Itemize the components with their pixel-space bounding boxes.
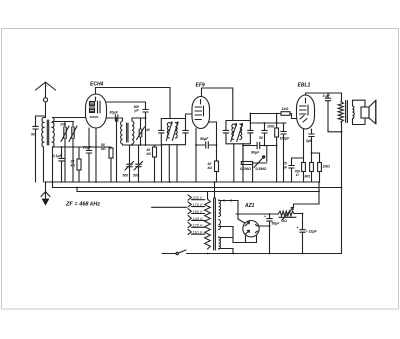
svg-text:40: 40 bbox=[145, 128, 150, 132]
capacitor trimmer 500 a bbox=[123, 145, 134, 182]
mains tap arrow 220 V bbox=[188, 195, 191, 200]
wire ECH4 cathode bbox=[95, 128, 97, 182]
inductor output secondary bbox=[353, 106, 355, 119]
inductor antenna primary bbox=[42, 118, 44, 148]
wire AVC line bbox=[53, 146, 112, 148]
svg-text:3 µF: 3 µF bbox=[323, 94, 331, 98]
tube AZ1 rectifier bbox=[243, 221, 259, 237]
svg-text:500: 500 bbox=[133, 174, 139, 178]
wire B+ rail right bbox=[341, 122, 343, 254]
svg-text:145 V: 145 V bbox=[193, 217, 203, 221]
wire coil tops bbox=[52, 147, 54, 188]
ground bbox=[41, 182, 50, 206]
wire AZ1 heater loop bbox=[219, 227, 257, 243]
capacitor 300uF padder bbox=[134, 102, 149, 145]
wire primary top bbox=[207, 192, 209, 200]
svg-text:+: + bbox=[297, 226, 299, 230]
wire IF2 to chassis bbox=[234, 144, 243, 182]
svg-text:kΩ: kΩ bbox=[101, 147, 106, 151]
antenna bbox=[36, 82, 56, 102]
svg-text:AZ1: AZ1 bbox=[244, 203, 255, 209]
svg-text:50µF: 50µF bbox=[272, 222, 281, 226]
arrow core adjust IF1 a bbox=[166, 122, 172, 141]
inductor IF1 secondary bbox=[175, 123, 177, 139]
capacitor 20uF bbox=[82, 128, 92, 182]
svg-text:125 V: 125 V bbox=[193, 224, 203, 228]
resistor 1M detector bbox=[267, 123, 279, 182]
mains terminal 1 bbox=[152, 206, 187, 208]
capacitor 25uF bias bbox=[282, 158, 304, 182]
capacitor 50uF cathode bbox=[196, 137, 217, 148]
wire EF9 grid bbox=[186, 114, 193, 119]
wire HV to AZ1 plate bbox=[219, 199, 245, 223]
resistor 1M output bbox=[312, 153, 331, 182]
transformer output primary bbox=[338, 102, 343, 123]
transformer mains secondary heater AZ1 bbox=[219, 220, 221, 230]
capacitor antenna 50 bbox=[31, 116, 46, 182]
wire AZ1 cathode bbox=[259, 214, 269, 254]
wire core ground bbox=[214, 182, 216, 198]
svg-text:150 V: 150 V bbox=[193, 210, 203, 214]
wire bottom return bbox=[187, 253, 342, 255]
svg-text:220 V: 220 V bbox=[192, 196, 203, 200]
svg-text:170 V: 170 V bbox=[193, 203, 203, 207]
arrow core adjust IF2 a bbox=[231, 124, 237, 142]
resistor 40k cathode bbox=[207, 122, 219, 182]
svg-text:50µF: 50µF bbox=[200, 137, 209, 141]
variable capacitor tuning bbox=[53, 122, 74, 183]
tube EBL1 bbox=[297, 95, 315, 129]
svg-text:Ω: Ω bbox=[295, 173, 299, 177]
inductor core antenna bbox=[47, 120, 48, 145]
wire antenna down bbox=[44, 102, 46, 182]
inductor IF2 secondary bbox=[240, 124, 242, 140]
svg-text:EBL1: EBL1 bbox=[298, 83, 311, 89]
svg-text:ECH4: ECH4 bbox=[90, 82, 104, 88]
resistor 1k grid stopper bbox=[281, 107, 297, 119]
inductor IF1 primary bbox=[167, 123, 169, 139]
inductor antenna secondary bbox=[53, 118, 55, 148]
svg-text:50: 50 bbox=[31, 133, 35, 137]
variable capacitor trimmer bbox=[69, 122, 77, 183]
heater bus bbox=[77, 188, 319, 192]
svg-text:80µF: 80µF bbox=[110, 111, 119, 115]
wire detector rail2 bbox=[250, 114, 286, 124]
variable capacitor oscillator bbox=[137, 118, 150, 140]
wire heater winding taps bbox=[219, 238, 233, 254]
transformer output core bbox=[346, 101, 348, 123]
svg-text:50: 50 bbox=[259, 136, 263, 140]
capacitor 90uF coupling bbox=[251, 142, 260, 154]
switch mains bbox=[176, 250, 186, 255]
capacitor 80uF coupling bbox=[107, 111, 123, 122]
mains tap arrow 125 V bbox=[188, 223, 191, 228]
resistor 0.2M bbox=[305, 163, 314, 183]
resistor 25k bbox=[70, 147, 82, 182]
svg-text:100: 100 bbox=[60, 123, 66, 127]
wire EF9 cathode bbox=[195, 129, 197, 183]
transformer mains secondary heater bbox=[219, 237, 221, 249]
svg-text:0,5MΩ: 0,5MΩ bbox=[256, 167, 267, 171]
inductor oscillator secondary bbox=[132, 121, 134, 144]
svg-text:0,1MΩ: 0,1MΩ bbox=[240, 167, 251, 171]
capacitor 100uF diode bbox=[280, 123, 291, 182]
svg-text:1MΩ: 1MΩ bbox=[323, 165, 331, 169]
wire B+ raw bbox=[236, 213, 279, 215]
inductor core oscillator bbox=[127, 123, 128, 142]
wire oscillator bottom line bbox=[123, 137, 162, 145]
resistor 50k bbox=[101, 143, 113, 182]
svg-text:1MΩ: 1MΩ bbox=[267, 125, 275, 129]
capacitor 5uF cathode bbox=[306, 129, 314, 163]
wire choke out bbox=[294, 213, 303, 215]
svg-text:110 V: 110 V bbox=[193, 231, 203, 235]
svg-text:1kΩ: 1kΩ bbox=[282, 107, 289, 111]
capacitor 3uF tone bbox=[323, 93, 342, 132]
svg-text:90µF: 90µF bbox=[251, 151, 260, 155]
wire EF9 anode to IF2 bbox=[202, 88, 233, 121]
wire IF1 feed bbox=[161, 145, 163, 182]
svg-text:5µF: 5µF bbox=[306, 139, 313, 143]
capacitor trimmer 500 b bbox=[133, 145, 143, 182]
capacitor detector a bbox=[259, 123, 267, 146]
arrow core adjust IF1 b bbox=[172, 122, 178, 141]
wire detector rail bbox=[250, 114, 281, 121]
transformer mains secondary HV bbox=[219, 200, 221, 217]
svg-text:7kΩ: 7kΩ bbox=[281, 219, 288, 223]
capacitor 25uF filter bbox=[264, 215, 280, 226]
svg-text:500: 500 bbox=[123, 174, 129, 178]
transformer mains core bbox=[214, 198, 216, 250]
resistor 40k oscillator bbox=[146, 145, 157, 182]
mains tap arrow 145 V bbox=[188, 216, 191, 221]
wire ECH4 anode to IF1 bbox=[96, 88, 171, 119]
potentiometer volume bbox=[240, 146, 267, 183]
IF transformer 2 box bbox=[223, 121, 253, 144]
svg-text:kΩ: kΩ bbox=[147, 152, 152, 156]
arrow core adjust IF2 b bbox=[237, 124, 243, 142]
mains tap arrow 110 V bbox=[188, 229, 191, 234]
wire EBL1 anode bbox=[306, 93, 342, 101]
svg-text:100µF: 100µF bbox=[280, 137, 291, 141]
mains tap arrow 150 V bbox=[188, 209, 191, 214]
transformer output secondary loop bbox=[353, 100, 366, 124]
wire grid ECH4 bbox=[53, 117, 86, 119]
svg-text:≈ 22µF: ≈ 22µF bbox=[306, 230, 318, 234]
svg-text:kΩ: kΩ bbox=[208, 166, 213, 170]
wire ECH4 triode grid bbox=[107, 101, 146, 103]
capacitor 22uF filter bbox=[297, 214, 318, 254]
chassis bus bbox=[46, 181, 320, 183]
wire grid leak column bbox=[116, 118, 118, 182]
wire AF takeoff bbox=[243, 145, 277, 147]
wire IF1 to chassis bbox=[169, 145, 177, 182]
svg-text:+: + bbox=[264, 215, 266, 219]
svg-text:20µF: 20µF bbox=[82, 146, 92, 150]
inductor oscillator primary bbox=[121, 121, 123, 144]
svg-text:MΩ: MΩ bbox=[305, 175, 311, 179]
tube EF9 bbox=[192, 97, 210, 129]
svg-text:ZF = 468 kHz: ZF = 468 kHz bbox=[65, 202, 100, 208]
B+ bus bbox=[53, 187, 342, 189]
mains tap arrow 170 V bbox=[188, 202, 191, 207]
transformer mains primary bbox=[205, 199, 211, 249]
capacitor 0.1uF bbox=[53, 147, 65, 182]
resistor 700 ohm bbox=[295, 129, 306, 182]
inductor IF2 primary bbox=[232, 124, 234, 140]
wire oscillator tops bbox=[123, 118, 146, 121]
wire choke tap bbox=[294, 182, 320, 207]
choke field coil 7k bbox=[279, 207, 297, 223]
svg-text:0,1µF: 0,1µF bbox=[53, 154, 63, 158]
IF transformer 1 box bbox=[159, 119, 189, 145]
loudspeaker bbox=[361, 100, 376, 124]
tube ECH4 bbox=[86, 94, 107, 128]
svg-text:kΩ: kΩ bbox=[71, 164, 76, 168]
mains terminal 2 bbox=[162, 253, 176, 255]
